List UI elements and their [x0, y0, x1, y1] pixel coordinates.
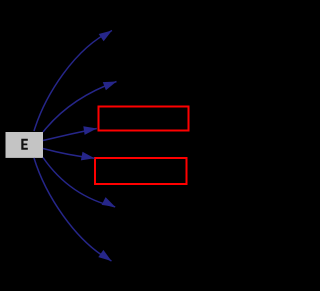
- arrowhead 5: [102, 197, 116, 207]
- wire arrow 2 (E to upper): [43, 82, 117, 133]
- box 2 (red rectangle): [95, 158, 187, 184]
- node E label: [21, 139, 28, 150]
- wire arrow 1 (E to top): [34, 31, 112, 132]
- wire arrow 5 (E to lower): [43, 158, 115, 207]
- wire arrow 3 (E to box 1): [43, 129, 97, 141]
- box 1 (red rectangle): [99, 107, 189, 131]
- wire arrow 6 (E to bottom): [34, 158, 112, 261]
- arrowhead 1: [99, 31, 112, 42]
- arrowhead 2: [103, 82, 117, 91]
- wire arrow 4 (E to box 2): [43, 149, 95, 159]
- arrowhead 4: [81, 152, 95, 161]
- arrowhead 3: [83, 126, 97, 135]
- node E (grey box): [6, 132, 44, 158]
- arrowhead 6: [98, 250, 111, 261]
